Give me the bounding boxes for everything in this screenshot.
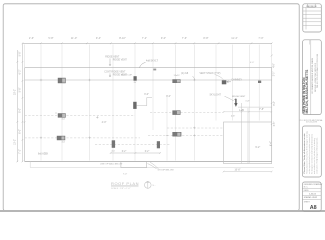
corner extension lines to dimension line — [24, 45, 26, 68]
svg-text:LINE OF WALL BELOW: LINE OF WALL BELOW — [100, 162, 122, 165]
small vent on top-right step — [258, 81, 261, 83]
svg-text:STOOP BELOW: STOOP BELOW — [158, 169, 175, 171]
small roof vent on top edge — [153, 69, 156, 71]
svg-text:4'-6": 4'-6" — [231, 116, 236, 118]
svg-text:9'-2": 9'-2" — [255, 146, 260, 149]
svg-text:4'-0": 4'-0" — [102, 121, 107, 124]
svg-text:6x6 AZEK: 6x6 AZEK — [38, 152, 49, 155]
right edge ticks and rotated dim texts — [271, 102, 273, 125]
small dim line above bottom edge — [111, 152, 161, 154]
svg-text:8'-8": 8'-8" — [203, 36, 208, 40]
revisions box — [303, 4, 322, 32]
svg-text:4'-8": 4'-8" — [274, 63, 276, 68]
chimney pair right row3 — [173, 132, 182, 136]
left dimension ticks — [17, 61, 26, 162]
svg-text:7'-0": 7'-0" — [123, 173, 128, 175]
svg-text:5'-8": 5'-8" — [48, 36, 53, 40]
svg-text:4x8 SKYLT: 4x8 SKYLT — [146, 60, 158, 63]
svg-text:N.-: N.- — [153, 185, 156, 187]
svg-text:SCALE : 1/8" = 1'-0": SCALE : 1/8" = 1'-0" — [111, 187, 131, 190]
svg-text:Please Note: Verify all dimens: Please Note: Verify all dimensions on si… — [303, 133, 306, 174]
svg-text:7'-6": 7'-6" — [182, 36, 187, 40]
top dimension ticks — [22, 42, 273, 44]
svg-text:6'-0": 6'-0" — [19, 129, 22, 134]
project info box — [302, 40, 321, 115]
svg-text:SKYLIGHT: SKYLIGHT — [210, 95, 222, 97]
svg-text:SHEET: SHEET — [304, 201, 311, 203]
svg-text:123 GRANITE AVENUE MILTON, MA: 123 GRANITE AVENUE MILTON, MASS — [311, 57, 314, 94]
sheet outer border — [3, 4, 299, 211]
small cross markers at grid intersections — [40, 79, 196, 139]
top dimension texts — [29, 36, 264, 40]
svg-text:6'-2": 6'-2" — [122, 151, 127, 153]
svg-text:RIDGE VENT: RIDGE VENT — [113, 59, 128, 61]
leader from porch bump — [148, 164, 157, 169]
svg-text:RIDGE VENT: RIDGE VENT — [113, 75, 128, 77]
left dimension line inner — [21, 43, 23, 161]
svg-text:11'-4": 11'-4" — [231, 36, 237, 40]
svg-text:VENT STACK (TYP): VENT STACK (TYP) — [200, 72, 221, 75]
svg-text:9'-4": 9'-4" — [96, 36, 101, 40]
north arrow — [145, 182, 152, 189]
svg-text:L+B: L+B — [239, 109, 244, 112]
svg-text:construction. Notify designer: construction. Notify designer of discrep… — [315, 137, 318, 174]
top dimension line — [23, 42, 272, 44]
svg-text:3'-0": 3'-0" — [166, 95, 171, 98]
svg-text:7'-2": 7'-2" — [142, 36, 147, 40]
svg-text:13'-2": 13'-2" — [13, 139, 16, 145]
svg-text:617-555-0198: 617-555-0198 — [306, 122, 317, 124]
svg-text:16'-8": 16'-8" — [234, 168, 240, 171]
svg-text:7'-8": 7'-8" — [259, 108, 264, 111]
svg-text:7'-2": 7'-2" — [19, 149, 22, 154]
garage / lower-right roof rectangle — [224, 122, 272, 164]
svg-text:5'-8": 5'-8" — [19, 87, 22, 92]
svg-text:1'-8": 1'-8" — [245, 101, 250, 103]
svg-text:CHIMNEY: CHIMNEY — [232, 80, 243, 82]
svg-text:6'-2": 6'-2" — [145, 151, 150, 153]
svg-text:3'-0": 3'-0" — [144, 93, 149, 96]
left dimension texts (rotated) — [13, 51, 21, 153]
tall vent bottom-center — [157, 141, 160, 148]
tall vent bottom-left — [112, 140, 115, 148]
sheet info box — [302, 182, 323, 211]
svg-text:TEL 617-555-0123 FAX 617-555-: TEL 617-555-0123 FAX 617-555-0124 — [316, 53, 319, 88]
porch bump below bottom edge — [121, 162, 147, 168]
sheet bottom page edge — [0, 210, 325, 212]
svg-text:RIDGE VENT: RIDGE VENT — [232, 96, 246, 98]
svg-text:11'-0": 11'-0" — [71, 36, 77, 40]
svg-text:8'-10": 8'-10" — [119, 36, 126, 40]
svg-text:DATE:: DATE: — [304, 189, 310, 192]
svg-text:(2) 2x8: (2) 2x8 — [181, 73, 189, 75]
svg-text:5'-8": 5'-8" — [19, 51, 22, 56]
svg-text:12x12: 12x12 — [174, 75, 181, 77]
svg-text:20'-2": 20'-2" — [13, 89, 16, 95]
svg-text:2'-6": 2'-6" — [29, 36, 34, 40]
svg-text:7'-0": 7'-0" — [258, 36, 263, 40]
garage interior vertical lines — [241, 103, 243, 164]
dashed interior lines — [25, 113, 224, 145]
chimney box left row3 — [57, 136, 65, 140]
roof overhang line below building — [30, 167, 274, 169]
svg-text:RIDGE VENT: RIDGE VENT — [105, 56, 120, 58]
vent box center row2 + leader — [133, 102, 136, 109]
left dimension line outer — [16, 50, 18, 162]
dark blob right ridge with arrow — [222, 80, 227, 84]
garage upper dim line — [238, 106, 271, 108]
chimney pair right row2 — [173, 111, 181, 115]
chimney box left row2 — [58, 114, 66, 118]
svg-text:ROOF PLAN: ROOF PLAN — [111, 181, 139, 186]
garage bottom dim line — [224, 171, 272, 173]
svg-text:A8: A8 — [310, 205, 317, 211]
svg-text:3'-0": 3'-0" — [274, 72, 276, 77]
svg-text:6'-8": 6'-8" — [274, 122, 276, 127]
building top edge — [25, 67, 272, 69]
svg-text:DESIGNED / DRAWN BY: DESIGNED / DRAWN BY — [304, 183, 323, 186]
svg-text:JOB NO: 0512: JOB NO: 0512 — [304, 197, 318, 199]
svg-text:MILTON, MASSACHUSETTS: MILTON, MASSACHUSETTS — [305, 69, 309, 114]
vent box center ridge — [134, 76, 137, 81]
svg-text:4'-0": 4'-0" — [250, 62, 255, 64]
svg-text:8'-0": 8'-0" — [19, 108, 22, 113]
svg-text:6'-2": 6'-2" — [19, 69, 22, 74]
building outline — [24, 68, 26, 162]
chimney pair right ridge — [173, 75, 181, 83]
notes box — [302, 126, 321, 177]
svg-text:PROPOSED RESIDENCE: PROPOSED RESIDENCE — [302, 87, 304, 110]
svg-text:CONT RIDGE VENT: CONT RIDGE VENT — [104, 71, 126, 73]
svg-text:6'-4": 6'-4" — [270, 141, 273, 146]
svg-text:8'-2": 8'-2" — [274, 101, 276, 106]
svg-text:4-30-05: 4-30-05 — [309, 194, 317, 196]
grid extension lines (vertical, faint) — [41, 45, 259, 164]
svg-text:9'-0": 9'-0" — [161, 36, 166, 40]
ridge line — [25, 79, 272, 81]
chimney box left ridge — [58, 78, 66, 83]
